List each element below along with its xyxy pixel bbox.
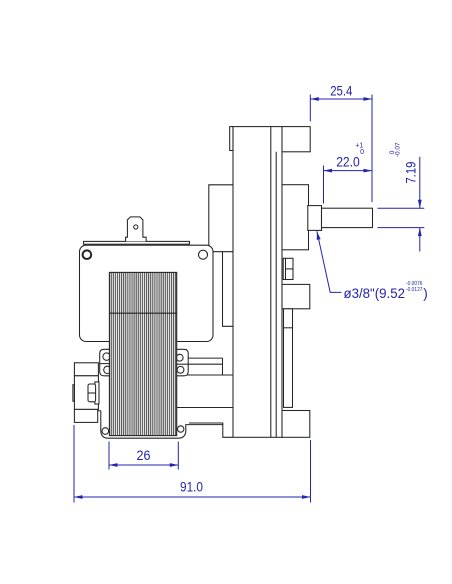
svg-text:22.0: 22.0 [336,155,360,170]
gearbox mid block [282,284,310,308]
arrow 22.0 left [324,169,333,173]
dim 26 line [109,464,178,466]
svg-text:7.19: 7.19 [403,162,418,184]
dim 7.19 line upper [419,157,421,209]
gearbox top mounting ear [282,127,310,152]
arrow 91.0 right [302,495,311,499]
svg-text:ø3/8"(9.52: ø3/8"(9.52 [344,286,406,301]
arrow 7.19 up [418,228,422,237]
arrow leader [317,231,321,240]
arrow 91.0 left [74,495,83,499]
gearbox thin strip [284,309,293,408]
rear ear lines [188,357,222,359]
gearbox inner vertical line 1 [270,127,272,438]
arrow 26 right [170,463,179,467]
dim 25.4 ext left [309,95,311,122]
dim 22.0 line [324,170,373,172]
gearbox bottom mounting ear [282,411,310,438]
joint line cover to gearbox [213,251,233,253]
dim 91.0 line [74,496,311,498]
svg-text:): ) [423,286,428,301]
arrow 25.4 left [310,97,319,101]
dim 26 ext left [108,442,110,470]
svg-text:26: 26 [137,448,151,463]
svg-text:91.0: 91.0 [180,480,203,495]
motor end cover [80,245,214,341]
dim 22.0 ext left [323,166,325,204]
right mounting ear [176,349,188,376]
gearbox top-left tab [230,127,233,151]
svg-text:-0.0127: -0.0127 [406,287,423,293]
leader line shaft diameter [317,231,342,292]
motor mounting plate top edge [209,185,233,249]
bearing boss [282,185,309,250]
dim 7.19 ext top [378,207,425,209]
svg-text:25.4: 25.4 [330,83,353,98]
bottom end cap [101,411,223,438]
bolt washer [95,382,99,404]
left bracket body [74,376,98,410]
motor rear plate edge [223,252,234,327]
dim 25.4 ext right [371,95,373,203]
cover screw right [199,250,208,259]
core divider line [109,312,176,314]
gearbox inner vertical line 2 [275,152,277,438]
terminal spade tab [126,217,147,242]
shaft stub [308,206,322,231]
dim 91.0 ext left [73,425,75,503]
gearbox housing plate [233,127,282,438]
dim 91.0 ext right [310,440,312,503]
arrow 22.0 right [364,169,373,173]
arrow 7.19 down [418,200,422,209]
svg-text:-0.07: -0.07 [394,142,401,157]
arrow 26 left [109,463,118,467]
bolt nut [88,384,96,402]
arrow 25.4 right [364,97,373,101]
dim 26 ext right [177,442,179,470]
cover screw left [83,250,92,259]
left mounting ear [100,349,111,376]
dim 25.4 line [310,98,372,100]
left bracket top tab [74,363,98,376]
left bracket lower block [74,409,97,422]
cap hole right [178,426,184,432]
dim 7.19 ext bottom [378,227,425,229]
dim 7.19 line lower [419,228,421,252]
output shaft [322,208,373,227]
cap hole left [102,428,109,435]
terminal tab hole [134,225,138,229]
stator lamination core [109,272,176,435]
svg-text:0: 0 [360,149,364,156]
stator top strip [84,241,190,244]
gearbox side screw [283,258,293,279]
bolt tip nub [73,385,75,402]
